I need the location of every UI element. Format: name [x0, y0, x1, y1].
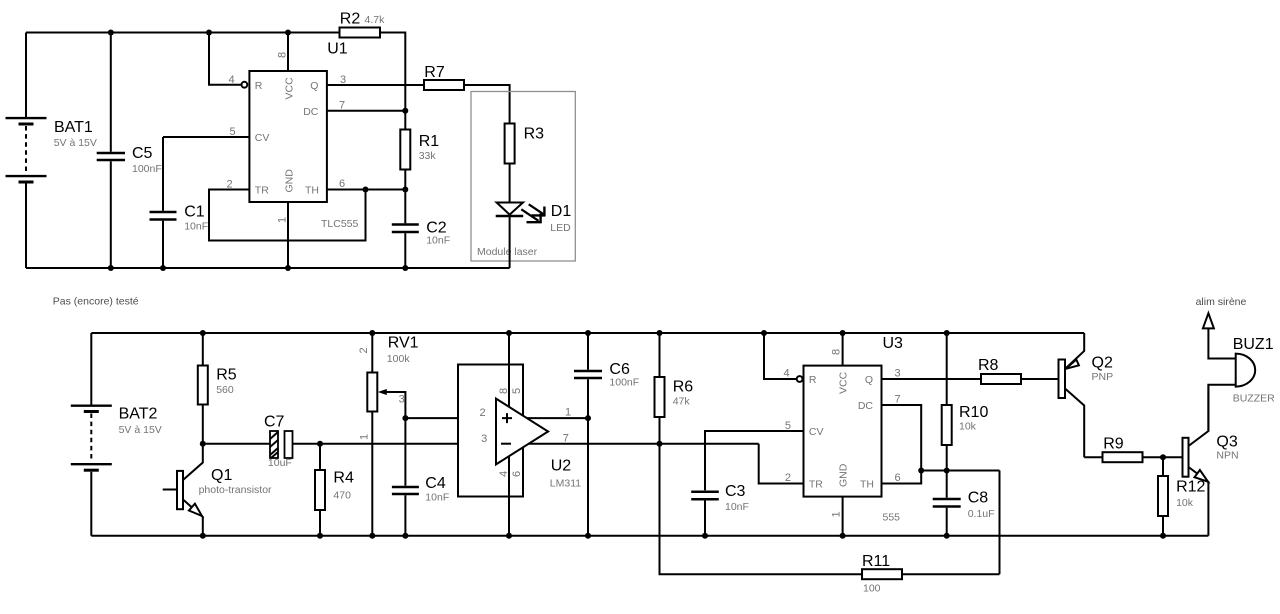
- svg-text:R: R: [255, 80, 263, 92]
- svg-text:R6: R6: [673, 379, 694, 396]
- svg-text:8: 8: [831, 349, 843, 355]
- svg-text:10uF: 10uF: [268, 457, 292, 469]
- svg-text:Module laser: Module laser: [477, 246, 538, 258]
- node junction DC/R1: [402, 108, 408, 114]
- svg-text:5V à 15V: 5V à 15V: [54, 137, 97, 149]
- svg-text:4: 4: [784, 368, 790, 380]
- comparator U2 LM311: [458, 333, 581, 536]
- pin 2 TR label (U3): [785, 472, 823, 491]
- node junction DC/TH: [918, 468, 924, 474]
- svg-text:100nF: 100nF: [132, 163, 162, 175]
- svg-text:U3: U3: [883, 335, 904, 352]
- svg-text:10nF: 10nF: [426, 235, 450, 247]
- pin 7 DC wire: [303, 100, 405, 119]
- node junction TH/R1/C2: [402, 187, 408, 193]
- pin 6 TH wire: [305, 178, 405, 197]
- wire bottom rail (top circuit): [26, 267, 510, 269]
- capacitor C7 (electrolytic): [203, 414, 320, 469]
- svg-text:R5: R5: [216, 366, 237, 383]
- resistor R7: [424, 64, 510, 124]
- svg-text:Q: Q: [865, 374, 873, 386]
- pin 8 VCC wire: [277, 33, 296, 100]
- wire top rail right of R2 to corner: [380, 33, 405, 111]
- svg-text:R12: R12: [1176, 478, 1205, 495]
- pin 1 GND wire: [277, 169, 296, 268]
- svg-text:C7: C7: [264, 414, 285, 431]
- wire R11 to TH net: [999, 471, 1001, 575]
- svg-text:CV: CV: [255, 132, 270, 144]
- buzzer BUZ1: [1208, 328, 1275, 431]
- node junction VCC top (U3): [840, 330, 846, 336]
- wire bottom rail (bottom circuit): [91, 535, 1208, 537]
- alim sirene arrow: [1196, 296, 1247, 328]
- svg-text:R1: R1: [419, 133, 440, 150]
- node junction C5/top: [108, 30, 114, 36]
- node junction C6 top: [585, 330, 591, 336]
- wire R11 branch: [660, 444, 863, 575]
- node junction R5/Q1/C7: [200, 441, 206, 447]
- svg-text:2: 2: [227, 179, 233, 191]
- transistor Q3 NPN: [1183, 385, 1239, 536]
- svg-text:C8: C8: [968, 490, 989, 507]
- svg-text:TR: TR: [255, 185, 269, 197]
- svg-text:CV: CV: [809, 426, 824, 438]
- resistor R5: [198, 333, 237, 444]
- svg-text:R11: R11: [862, 553, 890, 570]
- node junction R4 top: [317, 441, 323, 447]
- wire comparator input net: [320, 443, 496, 445]
- svg-text:D1: D1: [551, 203, 572, 220]
- svg-text:8: 8: [498, 388, 510, 394]
- pin 6 TH wire (U3): [860, 471, 921, 491]
- svg-text:4: 4: [498, 471, 510, 477]
- wire top rail left segment: [26, 32, 340, 34]
- node junction C6/pin1: [585, 415, 591, 421]
- node junction R6/output/R11: [657, 441, 663, 447]
- svg-text:LM311: LM311: [550, 478, 581, 490]
- capacitor C5: [97, 33, 162, 269]
- node junction C2/bottom: [402, 265, 408, 271]
- svg-text:7: 7: [339, 100, 345, 112]
- svg-text:NPN: NPN: [1216, 449, 1238, 461]
- node junction TH/R10/C8: [944, 468, 950, 474]
- svg-text:10k: 10k: [959, 421, 977, 433]
- capacitor C2: [392, 190, 450, 269]
- node junction C5/bottom: [108, 265, 114, 271]
- svg-text:560: 560: [216, 384, 234, 396]
- svg-text:10nF: 10nF: [184, 220, 208, 232]
- pin 5 CV wire: [163, 126, 269, 144]
- svg-text:10k: 10k: [1176, 497, 1194, 509]
- node junction C3 bottom: [702, 533, 708, 539]
- svg-text:0.1uF: 0.1uF: [968, 508, 995, 520]
- svg-text:GND: GND: [284, 169, 296, 193]
- svg-text:BUZZER: BUZZER: [1233, 393, 1275, 405]
- node junction RV1 bottom: [369, 533, 375, 539]
- svg-text:5: 5: [230, 126, 236, 138]
- svg-text:1: 1: [277, 217, 289, 223]
- svg-text:Q3: Q3: [1216, 434, 1237, 451]
- svg-text:3: 3: [399, 394, 405, 406]
- node junction wiper/C4/pin2: [402, 415, 408, 421]
- svg-text:TH: TH: [305, 185, 319, 197]
- capacitor C4: [392, 418, 449, 536]
- svg-text:R9: R9: [1103, 435, 1124, 452]
- svg-text:1: 1: [358, 434, 370, 440]
- node junction C1/bottom: [160, 265, 166, 271]
- svg-text:100nF: 100nF: [609, 377, 639, 389]
- svg-text:2: 2: [479, 407, 485, 419]
- node junction R-pin branch/top: [206, 30, 212, 36]
- svg-text:47k: 47k: [673, 396, 691, 408]
- op-amp/timer U1 TLC555 box: [249, 40, 358, 230]
- wire TH node to R10/C8/R11: [921, 470, 999, 472]
- node junction R6 top: [657, 330, 663, 336]
- node junction GND bottom (U3): [840, 533, 846, 539]
- pin 4 R wire with bubble: [209, 33, 263, 93]
- svg-text:C1: C1: [184, 203, 205, 220]
- svg-text:BUZ1: BUZ1: [1233, 336, 1274, 353]
- svg-text:alim sirène: alim sirène: [1196, 296, 1247, 308]
- svg-text:4: 4: [229, 74, 235, 86]
- pin 7 DC wire (U3): [858, 394, 921, 471]
- svg-text:5V à 15V: 5V à 15V: [119, 424, 162, 436]
- resistor R6: [655, 333, 694, 444]
- svg-text:3: 3: [895, 368, 901, 380]
- svg-text:C5: C5: [132, 145, 153, 162]
- potentiometer RV1: [358, 333, 418, 536]
- pin 4 R wire with bubble (U3): [764, 333, 817, 386]
- wire top rail (bottom circuit): [91, 332, 1084, 334]
- svg-text:1: 1: [565, 407, 571, 419]
- svg-text:4.7k: 4.7k: [365, 14, 386, 26]
- note text: [53, 296, 139, 308]
- pin 1 GND wire (U3): [831, 463, 850, 535]
- module laser box: [471, 92, 575, 262]
- pin 5 CV wire (U3): [705, 420, 823, 491]
- svg-text:C4: C4: [425, 475, 446, 492]
- resistor R10: [942, 333, 989, 471]
- svg-text:R7: R7: [424, 64, 445, 81]
- svg-text:TR: TR: [809, 479, 823, 491]
- diode D1 LED: [496, 203, 572, 269]
- svg-text:U2: U2: [551, 457, 572, 474]
- svg-text:GND: GND: [838, 463, 850, 487]
- battery BAT1: [6, 33, 97, 269]
- resistor R2: [340, 11, 386, 38]
- capacitor C6: [574, 333, 639, 536]
- node junction Q1 emitter/bottom rail: [200, 533, 206, 539]
- svg-text:TH: TH: [860, 479, 874, 491]
- svg-text:R2: R2: [340, 11, 361, 28]
- pin 8 VCC wire (U3): [831, 333, 850, 394]
- pin 3 Q wire: [310, 74, 424, 92]
- node junction R9/R12: [1160, 454, 1166, 460]
- svg-text:DC: DC: [303, 106, 319, 118]
- svg-text:6: 6: [339, 178, 345, 190]
- svg-text:TLC555: TLC555: [321, 218, 359, 230]
- svg-text:DC: DC: [858, 400, 874, 412]
- svg-text:8: 8: [277, 52, 289, 58]
- capacitor C3: [691, 483, 749, 536]
- svg-text:1: 1: [831, 511, 843, 517]
- svg-text:RV1: RV1: [388, 335, 419, 352]
- timer U3 555 box: [804, 335, 904, 524]
- transistor Q2 PNP: [1059, 333, 1114, 457]
- svg-text:6: 6: [895, 472, 901, 484]
- wire pin1 net to C6 line: [527, 417, 588, 419]
- svg-text:Q1: Q1: [211, 467, 232, 484]
- svg-text:3: 3: [340, 74, 346, 86]
- svg-text:Q: Q: [310, 80, 318, 92]
- svg-text:C3: C3: [725, 483, 746, 500]
- svg-text:U1: U1: [327, 40, 348, 57]
- svg-text:VCC: VCC: [284, 77, 296, 100]
- node junction RV1 top: [369, 330, 375, 336]
- svg-text:470: 470: [333, 490, 351, 502]
- svg-text:PNP: PNP: [1092, 371, 1114, 383]
- node junction C4 bottom: [402, 533, 408, 539]
- node junction pin4 branch top: [761, 330, 767, 336]
- svg-text:6: 6: [511, 471, 523, 477]
- capacitor C8: [933, 471, 995, 536]
- svg-text:100k: 100k: [387, 353, 411, 365]
- capacitor C1: [150, 137, 209, 268]
- node junction C8 bottom: [944, 533, 950, 539]
- svg-text:2: 2: [785, 472, 791, 484]
- svg-text:LED: LED: [550, 222, 571, 234]
- svg-text:BAT1: BAT1: [54, 119, 93, 136]
- node junction U2 power top: [506, 330, 512, 336]
- node junction R10 top: [944, 330, 950, 336]
- resistor R3: [505, 124, 545, 203]
- svg-text:555: 555: [883, 512, 901, 524]
- svg-text:Q2: Q2: [1092, 354, 1113, 371]
- svg-text:2: 2: [358, 347, 370, 353]
- svg-text:Pas (encore) testé: Pas (encore) testé: [53, 296, 139, 308]
- resistor R12: [1158, 457, 1206, 536]
- node junction U2 power bottom: [506, 533, 512, 539]
- pin 2 TR loop wire: [209, 179, 366, 241]
- node junction R12 bottom: [1160, 533, 1166, 539]
- svg-text:7: 7: [895, 394, 901, 406]
- svg-text:5: 5: [511, 388, 523, 394]
- svg-text:R10: R10: [959, 404, 988, 421]
- svg-text:3: 3: [481, 433, 487, 445]
- svg-text:R: R: [809, 374, 817, 386]
- svg-text:VCC: VCC: [838, 371, 850, 394]
- node junction VCC/top: [285, 30, 291, 36]
- node junction TR loop/TH: [363, 187, 369, 193]
- node junction R4 bottom: [317, 533, 323, 539]
- node junction R5 top: [200, 330, 206, 336]
- svg-text:R3: R3: [524, 126, 545, 143]
- svg-text:R8: R8: [978, 357, 999, 374]
- resistor R4: [315, 444, 354, 536]
- transistor Q1 photo-transistor: [163, 444, 272, 536]
- wire TR feedback: [759, 444, 804, 484]
- wire pin7 output net: [529, 443, 759, 445]
- svg-text:photo-transistor: photo-transistor: [199, 484, 272, 496]
- wire pin2 net: [405, 417, 496, 419]
- battery BAT2: [71, 333, 162, 536]
- resistor R11: [862, 553, 1000, 595]
- svg-text:10nF: 10nF: [425, 491, 449, 503]
- pin 3 Q wire (U3): [865, 368, 981, 387]
- svg-text:BAT2: BAT2: [119, 406, 158, 423]
- svg-text:100: 100: [863, 583, 881, 595]
- svg-text:33k: 33k: [419, 150, 437, 162]
- resistor R1: [400, 111, 439, 190]
- svg-text:R4: R4: [333, 469, 354, 486]
- resistor R9: [1084, 435, 1182, 462]
- node junction GND/bottom: [285, 265, 291, 271]
- svg-text:10nF: 10nF: [725, 501, 749, 513]
- svg-text:5: 5: [785, 420, 791, 432]
- node junction C6 bottom: [585, 533, 591, 539]
- resistor R8: [978, 357, 1059, 384]
